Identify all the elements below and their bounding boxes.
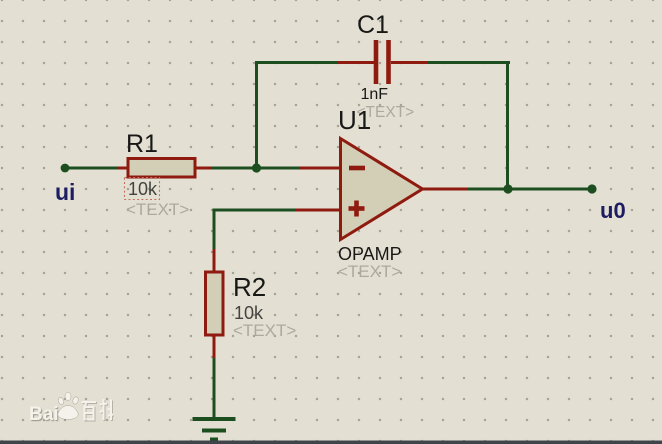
svg-text:Bai: Bai — [29, 404, 59, 425]
